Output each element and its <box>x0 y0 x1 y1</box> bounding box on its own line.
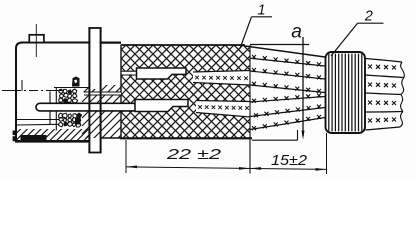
fan wire 2 <box>250 71 325 79</box>
interior floor line <box>17 123 61 126</box>
svg-text:22 ±2: 22 ±2 <box>166 147 221 163</box>
upper braid x marks <box>195 76 199 80</box>
back wall tick <box>21 80 23 91</box>
extension line right <box>326 133 328 174</box>
view A shelf line <box>250 44 309 46</box>
insert partition lines <box>49 92 51 125</box>
svg-text:1: 1 <box>258 3 266 19</box>
black pebble <box>75 118 81 125</box>
view A arrow <box>302 37 304 136</box>
lower braid channel <box>196 101 250 118</box>
right wire x marks row 4 <box>368 119 372 123</box>
fan wire 4 <box>250 97 325 103</box>
neck top line <box>101 42 121 44</box>
tab centerline <box>35 24 37 57</box>
fan top outline <box>245 46 325 57</box>
leader line item 1 <box>240 17 252 49</box>
cable gland hatched section <box>82 80 123 140</box>
svg-text:2: 2 <box>364 9 373 25</box>
lower crimp contact <box>135 100 188 112</box>
insert top edge <box>54 87 89 89</box>
fan wire 3 <box>250 85 325 93</box>
svg-text:а: а <box>291 21 302 42</box>
upper wire entry channel <box>122 71 138 74</box>
dimension arrows <box>126 166 137 169</box>
dimension line <box>126 167 327 170</box>
right wire boundary 4 <box>366 127 401 130</box>
retaining nubs <box>13 131 17 136</box>
connector shell outline <box>16 43 121 142</box>
cable tie tab <box>29 35 44 43</box>
coupling collar flange <box>88 28 101 153</box>
braid bundle cross-section (lower pebbles) <box>59 113 82 127</box>
potting compound block (crosshatched) <box>118 42 267 141</box>
lower braid x marks <box>198 105 202 109</box>
gland relief groove <box>81 92 121 95</box>
right wire x marks row 2 <box>368 83 372 87</box>
wire binding band (item 2) <box>326 52 366 133</box>
right wire boundary 3 <box>366 111 404 114</box>
axis centerline <box>2 90 62 92</box>
right wire boundary 1 <box>366 75 405 78</box>
right wire x marks row 3 <box>368 101 372 105</box>
upper crimp contact <box>137 68 187 79</box>
gland bottom line <box>101 137 121 139</box>
svg-text:15±2: 15±2 <box>271 153 307 169</box>
leader line item 2 <box>331 23 358 56</box>
upper black braid bit <box>73 77 80 86</box>
right wire x marks row 1 <box>368 65 372 69</box>
extension line left <box>125 140 127 173</box>
fan wire 5 <box>250 108 325 117</box>
shell bottom hatched wall <box>15 127 90 143</box>
rubber seal (solid black) <box>21 135 47 141</box>
extension line middle <box>249 45 251 174</box>
right wire break ends <box>401 62 405 78</box>
right wire boundary 2 <box>366 93 402 95</box>
right wire boundary 0 <box>366 59 403 63</box>
bottom wrap boundary line <box>252 139 298 141</box>
contact pin / wire into lower barrel <box>36 103 137 111</box>
upper braid channel <box>193 71 250 86</box>
fan wire 1 <box>250 58 325 66</box>
braid bundle cross-section (upper pebbles) <box>59 89 78 103</box>
interior shelf line <box>17 119 61 121</box>
fan wire 6 <box>250 118 325 130</box>
